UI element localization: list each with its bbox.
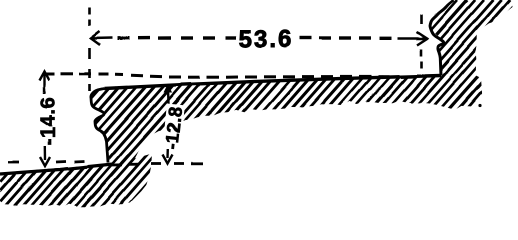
- dashed line at -12.8 level: [112, 164, 203, 166]
- dashed line at lower pavement level (left): [8, 161, 84, 162]
- dimension text -12.8 (rotated, with halo): [161, 103, 186, 152]
- dimension -12.8: lower arrow: [163, 149, 173, 164]
- upper kerb block moulded profile: [430, 0, 454, 76]
- dimension -12.8: upper arrow (solid head): [164, 84, 173, 93]
- dimension 53.6: left extension dashed line: [88, 8, 91, 91]
- upper reference dashed line: [43, 74, 389, 77]
- dimension 53.6: right extension dashed line: [420, 15, 423, 68]
- tread top edge: [104, 76, 441, 89]
- dimension 53.6: left arrow: [91, 32, 113, 46]
- lower slab top edge: [0, 164, 113, 174]
- dimension 53.6: dashed line: [118, 36, 392, 40]
- stray dot at right end of tread hatch: [478, 104, 481, 107]
- left curb moulded profile: [91, 89, 108, 163]
- dimension -14.6: vertical line with arrows: [40, 72, 51, 167]
- dimension 53.6: right arrow: [398, 32, 427, 45]
- svg-text:53.6: 53.6: [239, 26, 294, 53]
- svg-text:-14.6: -14.6: [38, 97, 60, 146]
